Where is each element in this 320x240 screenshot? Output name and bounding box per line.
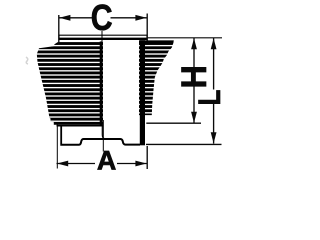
svg-text:C: C [91, 0, 113, 39]
svg-text:H: H [174, 65, 214, 88]
svg-text:A: A [97, 146, 116, 173]
svg-text:L: L [193, 90, 228, 106]
